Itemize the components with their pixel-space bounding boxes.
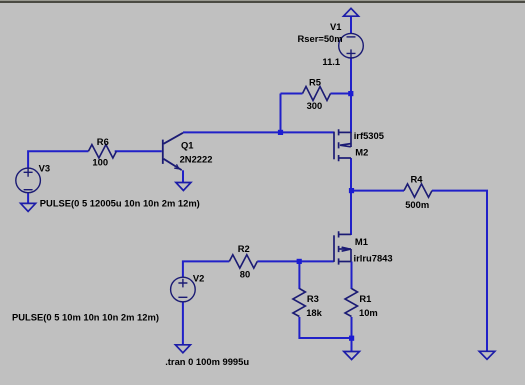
svg-text:.tran 0 100m 9995u: .tran 0 100m 9995u [165, 356, 249, 367]
svg-text:80: 80 [240, 268, 250, 279]
svg-text:R4: R4 [411, 174, 424, 185]
svg-text:R5: R5 [309, 77, 321, 88]
svg-text:M1: M1 [355, 236, 368, 247]
svg-text:Rser=50m: Rser=50m [298, 33, 343, 44]
svg-text:V3: V3 [39, 163, 50, 174]
svg-text:R1: R1 [359, 293, 371, 304]
svg-text:PULSE(0 5 12005u 10n 10n 2m 12: PULSE(0 5 12005u 10n 10n 2m 12m) [40, 198, 200, 209]
svg-text:R3: R3 [307, 293, 319, 304]
svg-text:18k: 18k [306, 307, 322, 318]
svg-text:irf5305: irf5305 [354, 130, 384, 141]
svg-text:10m: 10m [359, 307, 378, 318]
svg-text:R2: R2 [238, 243, 250, 254]
svg-text:V2: V2 [193, 273, 204, 284]
svg-text:R6: R6 [97, 136, 109, 147]
svg-text:300: 300 [307, 100, 323, 111]
svg-text:M2: M2 [355, 146, 368, 157]
svg-text:irlru7843: irlru7843 [354, 253, 393, 264]
svg-text:Q1: Q1 [181, 140, 194, 151]
svg-text:500m: 500m [405, 199, 429, 210]
svg-text:100: 100 [92, 156, 108, 167]
svg-text:11.1: 11.1 [322, 56, 340, 67]
svg-text:PULSE(0 5 10m 10n 10n 2m 12m): PULSE(0 5 10m 10n 10n 2m 12m) [12, 312, 159, 323]
svg-text:2N2222: 2N2222 [180, 153, 213, 164]
svg-text:V1: V1 [330, 21, 341, 32]
